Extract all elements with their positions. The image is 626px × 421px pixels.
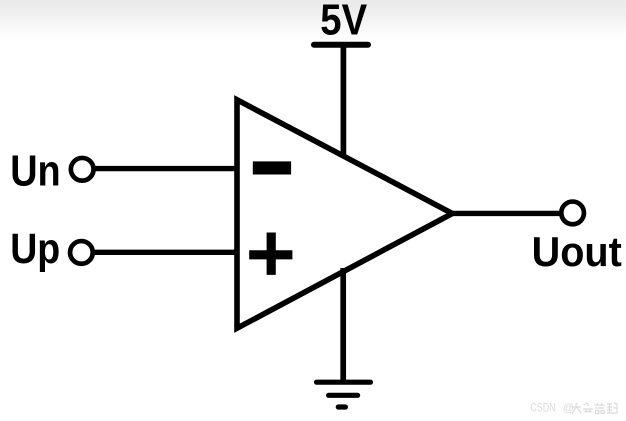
- wire Up to non-inverting input: [93, 250, 239, 255]
- non-inverting input plus sign: [249, 233, 292, 275]
- inverting input minus sign: [253, 161, 291, 174]
- terminal circle Un: [71, 158, 94, 181]
- wire Un to inverting input: [94, 166, 239, 171]
- ground symbol bar 1: [317, 380, 371, 385]
- wire 5V rail to op-amp top: [341, 45, 347, 158]
- wire op-amp bottom to ground: [340, 268, 346, 382]
- op-amp U1 triangle: [237, 100, 452, 328]
- power supply bar symbol: [314, 42, 368, 48]
- terminal circle Up: [70, 241, 93, 264]
- watermark CJK glyph 1: [572, 403, 618, 414]
- svg-text:CSDN: CSDN: [530, 401, 555, 415]
- svg-text:Up: Up: [10, 225, 60, 273]
- ground symbol bar 2: [329, 393, 358, 398]
- wire op-amp output to Uout terminal: [448, 211, 562, 216]
- svg-text:Uout: Uout: [532, 228, 622, 275]
- svg-text:5V: 5V: [320, 0, 367, 45]
- terminal circle Uout: [561, 202, 584, 225]
- svg-text:Un: Un: [10, 147, 61, 195]
- ground symbol bar 3: [338, 404, 345, 409]
